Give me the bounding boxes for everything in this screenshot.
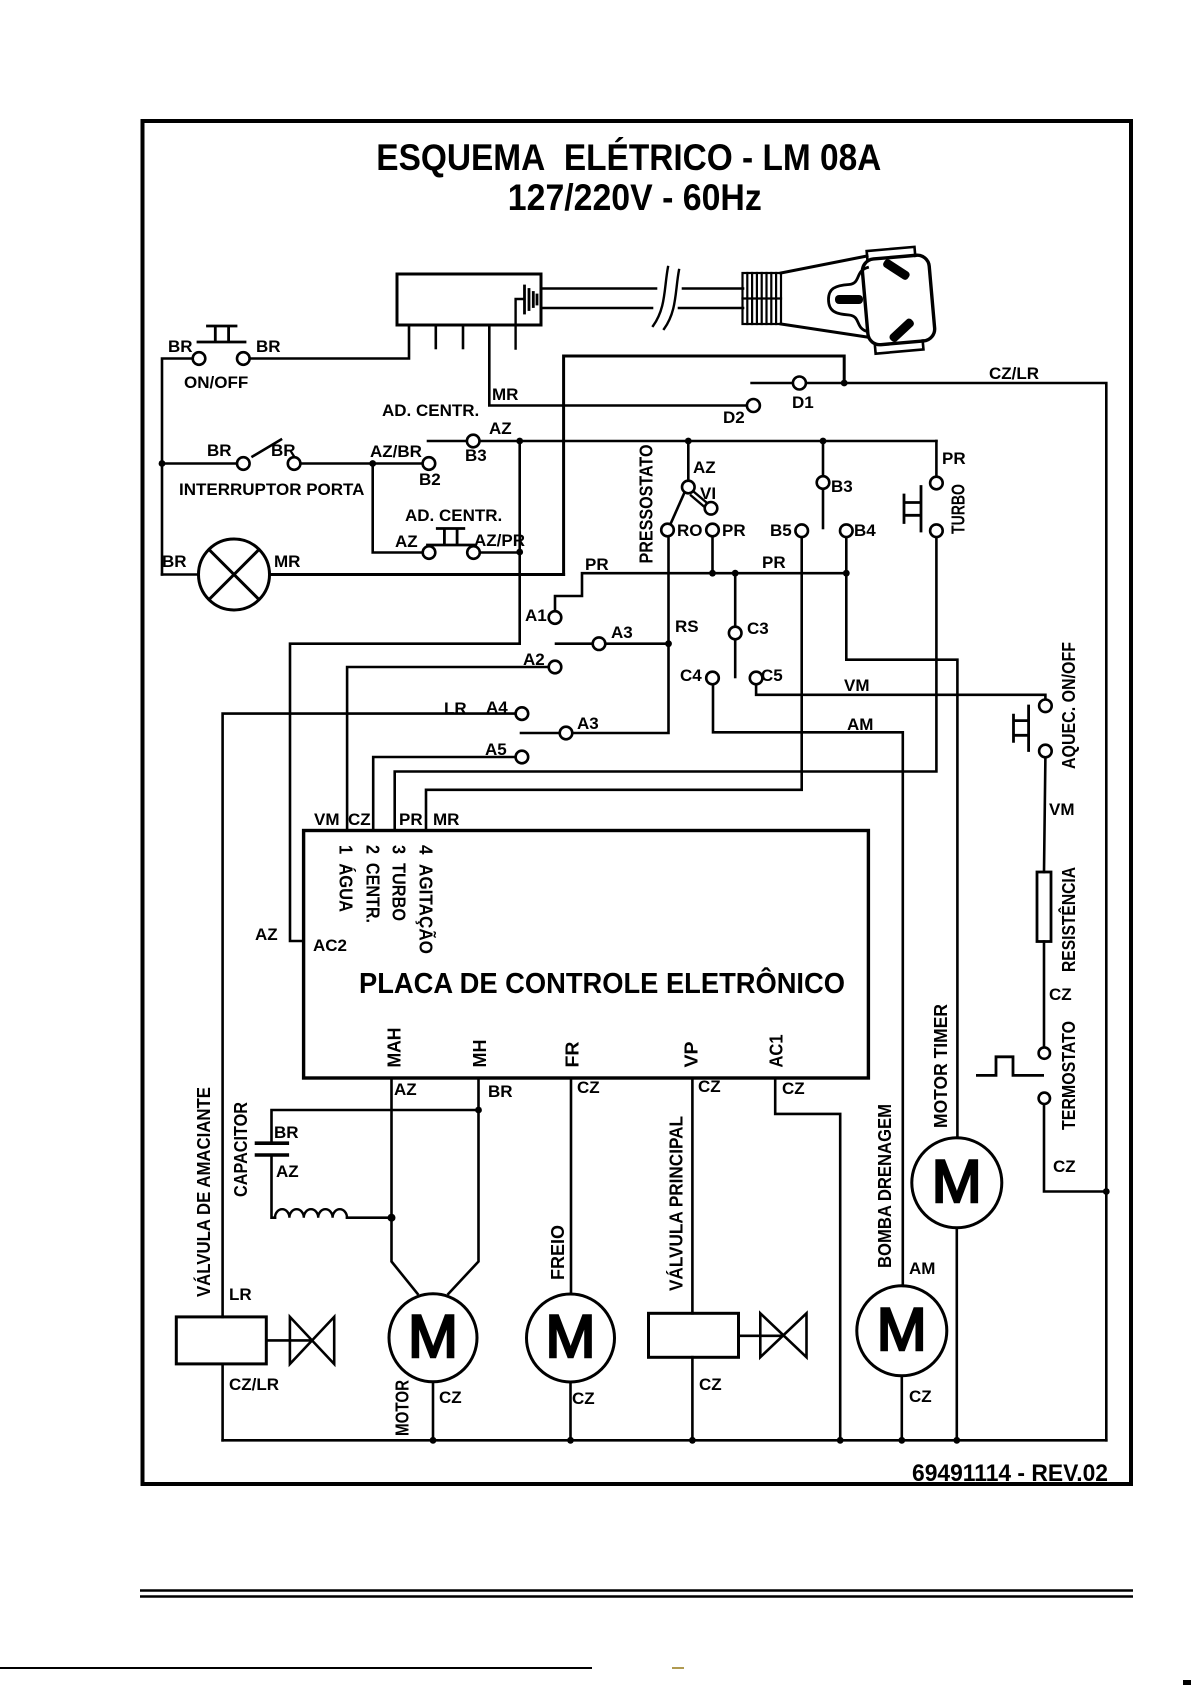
junction valvula principal at bus: [689, 1437, 696, 1444]
power cord lower conductor: [541, 307, 743, 310]
svg-text:CZ: CZ: [439, 1388, 462, 1407]
svg-text:MR: MR: [433, 810, 459, 829]
contact AD.CENTR AZ/PR: [467, 546, 480, 559]
plug strain relief: [743, 273, 782, 324]
svg-text:BR: BR: [274, 1123, 299, 1142]
svg-text:TERMOSTATO: TERMOSTATO: [1059, 1021, 1079, 1130]
wire junction to B2: [373, 462, 423, 465]
svg-text:CZ: CZ: [1053, 1157, 1076, 1176]
svg-text:C5: C5: [761, 666, 783, 685]
plug line slot upper: [882, 258, 911, 281]
plug top clip: [867, 247, 916, 260]
svg-text:PR: PR: [585, 555, 609, 574]
svg-text:B2: B2: [419, 470, 441, 489]
ON/OFF push-button symbol: [198, 326, 245, 342]
junction capacitor top: [475, 1107, 482, 1114]
svg-text:VÁLVULA PRINCIPAL: VÁLVULA PRINCIPAL: [665, 1116, 686, 1291]
connector C5: [750, 672, 763, 685]
border frame: [143, 121, 1132, 1484]
junction freio at bus: [567, 1437, 574, 1444]
svg-text:AZ: AZ: [255, 925, 278, 944]
svg-text:B4: B4: [854, 521, 876, 540]
junction PR contact: [709, 570, 716, 577]
cord break marks: [653, 267, 679, 329]
wire lamp riser to CZ/LR junction: [564, 356, 845, 575]
svg-text:AZ/PR: AZ/PR: [474, 531, 525, 550]
svg-text:CZ: CZ: [348, 810, 371, 829]
connector D1: [793, 377, 806, 390]
pressostato contact upper PR: [705, 502, 718, 515]
svg-text:VI: VI: [700, 484, 716, 503]
lamp: [199, 539, 270, 610]
svg-text:VP: VP: [682, 1042, 702, 1068]
svg-text:M: M: [546, 1303, 596, 1370]
wire ON/OFF left to riser: [162, 359, 193, 575]
svg-text:INTERRUPTOR PORTA: INTERRUPTOR PORTA: [179, 480, 364, 499]
connector A2: [549, 661, 562, 674]
thermostat contact upper: [1039, 1047, 1050, 1058]
connector B3: [467, 435, 480, 448]
lamp leads: [162, 573, 199, 576]
svg-text:MR: MR: [492, 385, 518, 404]
contact AQUEC lower: [1039, 745, 1052, 758]
contact door switch right: [288, 457, 301, 470]
svg-text:CAPACITOR: CAPACITOR: [231, 1102, 251, 1197]
ground symbol inside filter: [516, 299, 523, 349]
svg-text:CZ: CZ: [782, 1079, 805, 1098]
power cord upper conductor: [541, 287, 743, 290]
valvula amaciante bottom wire: [221, 1364, 224, 1440]
svg-text:AZ: AZ: [489, 419, 512, 438]
svg-text:BR: BR: [168, 337, 193, 356]
freio bottom wire: [569, 1382, 572, 1440]
svg-text:VÁLVULA DE AMACIANTE: VÁLVULA DE AMACIANTE: [193, 1087, 214, 1297]
svg-text:D1: D1: [792, 393, 814, 412]
plug head: [861, 246, 937, 354]
contact AQUEC upper: [1039, 700, 1052, 713]
svg-text:MOTOR: MOTOR: [393, 1380, 413, 1436]
A3b lead: [521, 732, 560, 735]
svg-text:LR: LR: [229, 1285, 252, 1304]
svg-text:ON/OFF: ON/OFF: [184, 373, 248, 392]
svg-text:PLACA DE CONTROLE ELETRÔNICO: PLACA DE CONTROLE ELETRÔNICO: [359, 966, 845, 1000]
svg-text:127/220V - 60Hz: 127/220V - 60Hz: [508, 177, 762, 218]
svg-text:B5: B5: [770, 521, 792, 540]
svg-text:4 AGITAÇÃO: 4 AGITAÇÃO: [416, 845, 437, 954]
svg-text:1 ÁGUA: 1 ÁGUA: [336, 845, 357, 912]
svg-text:TURBO: TURBO: [949, 484, 969, 534]
resistor to thermostat wire: [1043, 942, 1046, 1048]
svg-text:AC1: AC1: [767, 1035, 787, 1068]
valvula amaciante coil box: [176, 1317, 266, 1364]
svg-text:A3: A3: [577, 714, 599, 733]
resistor body: [1037, 872, 1051, 942]
svg-text:FREIO: FREIO: [548, 1225, 568, 1280]
valvula principal valve symbol: [739, 1335, 784, 1338]
bottom page edge line: [0, 1667, 592, 1669]
svg-text:D2: D2: [723, 408, 745, 427]
line filter box: [397, 274, 541, 325]
svg-text:FR: FR: [563, 1042, 583, 1068]
AQUEC push-button symbol: [1014, 706, 1029, 751]
TURBO feed corner: [935, 441, 938, 477]
connector A3a: [593, 637, 606, 650]
resistor feed wire: [1044, 757, 1045, 872]
svg-text:C4: C4: [680, 666, 702, 685]
junction CZ/LR: [841, 380, 848, 387]
B3 lower stem and stub: [822, 441, 825, 477]
junction pressostato stem: [685, 438, 692, 445]
svg-text:AM: AM: [909, 1259, 935, 1278]
svg-text:LR: LR: [444, 699, 467, 718]
svg-text:AZ: AZ: [394, 1080, 417, 1099]
TURBO lower contact wire to board PR pin: [395, 537, 937, 831]
motor timer bottom wire: [955, 1228, 958, 1441]
board bottom pin MAH wire (AZ): [392, 1078, 418, 1294]
svg-text:CZ: CZ: [699, 1375, 722, 1394]
AZ riser x=519.7: [290, 441, 520, 941]
PR contact stem to PR wire: [711, 536, 714, 573]
plug body: [781, 256, 867, 337]
connector A4: [516, 707, 529, 720]
connector B5: [795, 524, 808, 537]
motor MOTOR TIMER: [912, 1138, 1002, 1228]
board bottom pin MH wire (BR): [448, 1078, 478, 1294]
contact AD.CENTR AZ: [423, 546, 436, 559]
contact ON/OFF left: [193, 352, 206, 365]
contact door switch left: [237, 457, 250, 470]
svg-text:AD. CENTR.: AD. CENTR.: [382, 401, 479, 420]
svg-text:PRESSOSTATO: PRESSOSTATO: [637, 445, 657, 564]
pressostato contact RO: [661, 524, 674, 537]
svg-text:A2: A2: [523, 650, 545, 669]
svg-text:AZ: AZ: [693, 458, 716, 477]
A3a lead: [556, 642, 593, 645]
svg-text:RESISTÊNCIA: RESISTÊNCIA: [1058, 867, 1079, 972]
junction RS: [665, 640, 672, 647]
svg-text:RS: RS: [675, 617, 699, 636]
svg-text:BR: BR: [256, 337, 281, 356]
svg-text:MH: MH: [470, 1040, 490, 1068]
svg-text:AM: AM: [847, 715, 873, 734]
svg-text:C3: C3: [747, 619, 769, 638]
connector D2: [747, 399, 760, 412]
valvula amaciante valve symbol: [266, 1339, 312, 1342]
motor BOMBA DRENAGEM: [857, 1286, 947, 1376]
svg-text:AQUEC. ON/OFF: AQUEC. ON/OFF: [1059, 642, 1079, 769]
pressostato contact VI: [682, 481, 695, 494]
svg-text:VM: VM: [1049, 800, 1075, 819]
bottom bus wire: [223, 1439, 1107, 1442]
svg-text:AD. CENTR.: AD. CENTR.: [405, 506, 502, 525]
svg-text:CZ: CZ: [909, 1387, 932, 1406]
door switch blade: [253, 440, 282, 457]
junction AZ riser at AZ/PR row: [516, 549, 523, 556]
junction motor timer at bus: [953, 1437, 960, 1444]
svg-text:M: M: [408, 1303, 458, 1370]
svg-text:A3: A3: [611, 623, 633, 642]
svg-text:M: M: [877, 1296, 927, 1363]
plug line slot lower: [888, 317, 915, 343]
connector A5: [516, 751, 529, 764]
svg-text:AZ/BR: AZ/BR: [370, 442, 422, 461]
inductor to motor lead wire: [347, 1216, 392, 1219]
svg-text:VM: VM: [314, 810, 340, 829]
svg-text:A5: A5: [485, 740, 507, 759]
footer double rule: [140, 1589, 1133, 1592]
capacitor bottom wire: [272, 1157, 276, 1218]
motor MOTOR: [389, 1294, 477, 1382]
svg-text:AC2: AC2: [313, 936, 347, 955]
motor bottom wire: [432, 1382, 435, 1441]
wire CZ/LR D1 line: [752, 383, 1107, 1440]
board bottom pin AC1 wire: [775, 1078, 840, 1440]
svg-text:3 TURBO: 3 TURBO: [389, 845, 409, 921]
junction thermostat return: [1103, 1188, 1110, 1195]
thermostat return wire: [1044, 1104, 1106, 1192]
junction C3 stem: [732, 570, 739, 577]
svg-text:BR: BR: [271, 441, 296, 460]
junction inductor to AZ lead: [388, 1214, 396, 1222]
A5 wire to board CZ pin: [373, 757, 516, 831]
motor FREIO: [527, 1294, 615, 1382]
wire filter left pin to ON/OFF: [250, 325, 410, 359]
start winding inductor: [275, 1209, 347, 1218]
A2 wire to board VM pin: [347, 667, 549, 831]
plug neutral slot: [835, 295, 863, 304]
PR wire from A1 step: [555, 573, 846, 611]
connector B4: [840, 524, 853, 537]
thermostat contact lower: [1039, 1093, 1050, 1104]
junction AD.CENTR drop: [369, 460, 376, 467]
B5 wire to board MR pin: [426, 537, 802, 831]
svg-text:AZ: AZ: [276, 1162, 299, 1181]
pressostato VI stem: [687, 441, 690, 481]
svg-text:B3: B3: [831, 477, 853, 496]
junction B4 column end: [843, 570, 850, 577]
svg-text:B3: B3: [465, 446, 487, 465]
svg-text:VM: VM: [844, 676, 870, 695]
connector C3: [729, 627, 742, 640]
junction B3 lower stem: [820, 438, 827, 445]
valvula principal coil box: [649, 1313, 739, 1357]
svg-text:BOMBA DRENAGEM: BOMBA DRENAGEM: [875, 1104, 895, 1268]
svg-text:CZ: CZ: [577, 1078, 600, 1097]
junction motor at bus: [430, 1437, 437, 1444]
wire riser to door switch: [162, 462, 237, 465]
wire door switch to junction: [300, 462, 373, 465]
RO drop wire: [572, 536, 669, 733]
svg-text:BR: BR: [162, 552, 187, 571]
pressostato blade RO to VI: [671, 493, 685, 525]
C5 stem and VM wire: [756, 684, 1045, 700]
svg-text:AZ: AZ: [395, 532, 418, 551]
pressostato blade VI to second contact (double line): [691, 492, 707, 507]
plug bottom clip: [875, 341, 924, 354]
plug ground guide cutout: [829, 268, 868, 332]
C3 stem and stub: [734, 573, 737, 627]
connector A3b: [560, 727, 573, 740]
contact TURBO upper: [930, 477, 943, 490]
board bottom pin FR wire: [570, 1078, 573, 1294]
connector B3 lower: [817, 476, 830, 489]
valvula principal bottom wire: [691, 1357, 694, 1440]
junction AC1 at bus: [837, 1437, 844, 1444]
svg-text:M: M: [932, 1148, 982, 1215]
contact TURBO lower: [930, 524, 943, 537]
filter pin stubs: [434, 325, 437, 348]
AD.CENTR push-button symbol: [428, 529, 475, 546]
FOOTER: [0, 1591, 1191, 1685]
svg-text:PR: PR: [762, 553, 786, 572]
capacitor top wire: [272, 1110, 479, 1141]
capacitor plates: [257, 1141, 288, 1145]
bomba bottom wire: [900, 1376, 903, 1441]
svg-text:RO: RO: [677, 521, 703, 540]
svg-text:CZ/LR: CZ/LR: [229, 1375, 279, 1394]
svg-text:CZ: CZ: [572, 1389, 595, 1408]
board bottom pin VP wire: [691, 1078, 694, 1313]
svg-text:BR: BR: [488, 1082, 513, 1101]
connector A1: [549, 611, 562, 624]
svg-text:MR: MR: [274, 552, 300, 571]
wire MR filter pin to D2: [489, 325, 747, 406]
wire AZ/PR to AZ riser junction: [480, 551, 520, 554]
svg-text:PR: PR: [399, 810, 423, 829]
svg-text:MAH: MAH: [385, 1028, 405, 1068]
B4 wire to motor timer: [846, 537, 957, 1138]
connector C4: [706, 672, 719, 685]
junction AZ riser top: [516, 438, 523, 445]
contact ON/OFF right: [237, 352, 250, 365]
svg-text:BR: BR: [207, 441, 232, 460]
svg-text:PR: PR: [722, 521, 746, 540]
junction bomba at bus: [898, 1437, 905, 1444]
C4 stem and AM wire: [713, 684, 903, 1286]
wire AZ top line: [428, 440, 936, 443]
control board: [304, 831, 869, 1079]
svg-text:2 CENTR.: 2 CENTR.: [362, 845, 382, 923]
svg-text:CZ: CZ: [698, 1077, 721, 1096]
wire drop to AD.CENTR lower row: [373, 464, 423, 553]
svg-text:CZ/LR: CZ/LR: [989, 364, 1039, 383]
connector B2: [423, 457, 436, 470]
pressostato contact PR: [706, 524, 719, 537]
svg-text:ESQUEMA ELÉTRICO - LM 08A: ESQUEMA ELÉTRICO - LM 08A: [376, 137, 881, 178]
svg-text:CZ: CZ: [1049, 985, 1072, 1004]
svg-text:PR: PR: [942, 449, 966, 468]
svg-text:A1: A1: [525, 606, 547, 625]
TURBO push-button symbol: [904, 487, 921, 532]
junction door-switch branch: [159, 460, 166, 467]
svg-text:MOTOR TIMER: MOTOR TIMER: [931, 1004, 951, 1128]
svg-text:A4: A4: [486, 698, 508, 717]
svg-text:69491114 - REV.02: 69491114 - REV.02: [912, 1460, 1108, 1487]
A3a to RS wire: [605, 642, 669, 645]
A4 LR wire to amaciante valve: [223, 714, 516, 1317]
thermostat step symbol: [977, 1057, 1042, 1076]
